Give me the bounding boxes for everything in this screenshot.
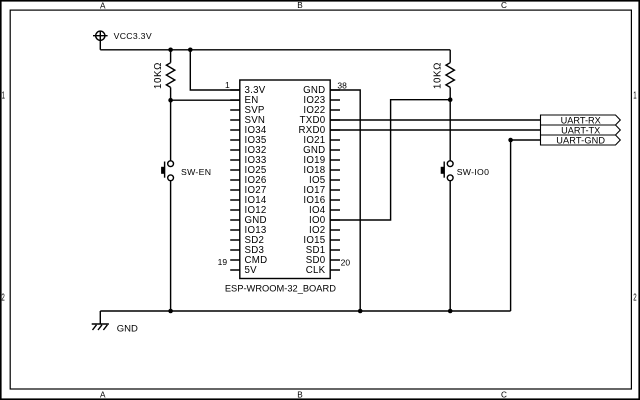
svg-text:1: 1 — [2, 91, 6, 102]
svg-text:SW-IO0: SW-IO0 — [457, 167, 490, 177]
wire GND pin 38 to rail — [330, 90, 360, 311]
svg-text:UART-TX: UART-TX — [561, 126, 600, 136]
svg-text:B: B — [297, 1, 303, 10]
resistor R2 10KΩ (IO0 pull-up) — [446, 50, 454, 100]
node junction SW-IO0/GND — [448, 309, 453, 314]
svg-text:1: 1 — [225, 80, 230, 90]
svg-text:GND: GND — [117, 324, 138, 335]
node junction IO0 pull-up — [448, 97, 453, 102]
svg-text:1: 1 — [633, 91, 637, 102]
wire EN to pin 2 — [171, 99, 240, 101]
wire UART-GND flag to rail — [511, 140, 541, 311]
net port flag UART-TX — [541, 125, 621, 135]
wire 3.3V to pin 1 — [190, 50, 240, 90]
svg-text:ESP-WROOM-32_BOARD: ESP-WROOM-32_BOARD — [225, 284, 336, 294]
svg-text:2: 2 — [1, 293, 5, 304]
wire junction to SW-IO0 — [449, 100, 451, 161]
svg-text:10KΩ: 10KΩ — [153, 62, 164, 89]
U1 left pin name labels — [245, 85, 268, 276]
wire rail to ground symbol — [99, 311, 101, 324]
svg-text:2: 2 — [633, 293, 637, 304]
svg-text:10KΩ: 10KΩ — [432, 62, 443, 89]
wire TXD0 to UART-RX — [330, 119, 540, 121]
node junction UART-GND — [508, 138, 513, 143]
resistor R1 10KΩ (EN pull-up) — [166, 50, 174, 100]
node junction R1 top — [168, 48, 173, 53]
svg-text:A: A — [100, 2, 106, 11]
pushbutton SW-IO0 — [444, 161, 453, 181]
U1 right pin name labels — [299, 85, 326, 276]
node junction 3.3V branch — [188, 48, 193, 53]
svg-text:C: C — [501, 390, 507, 399]
svg-text:38: 38 — [337, 81, 347, 91]
IC U1 ESP-WROOM-32_BOARD body — [230, 80, 340, 279]
wire SW-IO0 to GND rail — [449, 181, 451, 311]
wire RXD0 to UART-TX — [330, 129, 540, 131]
svg-text:5V: 5V — [245, 265, 258, 276]
svg-text:B: B — [297, 390, 303, 399]
node junction SW-EN/GND — [168, 309, 173, 314]
node junction EN — [168, 98, 173, 103]
svg-text:SW-EN: SW-EN — [181, 167, 211, 177]
wire EN to SW-EN — [170, 100, 172, 161]
net port flag UART-RX — [541, 115, 621, 125]
pushbutton SW-EN — [165, 161, 174, 181]
node junction GND38/rail — [358, 309, 363, 314]
svg-text:20: 20 — [341, 258, 351, 268]
wire GND rail — [100, 310, 510, 312]
svg-text:UART-GND: UART-GND — [556, 136, 605, 146]
svg-text:19: 19 — [218, 257, 228, 267]
svg-text:C: C — [501, 1, 507, 10]
svg-text:CLK: CLK — [306, 265, 326, 276]
svg-text:VCC3.3V: VCC3.3V — [114, 31, 152, 41]
wire VCC top rail — [100, 49, 450, 51]
wire SW-EN to GND rail — [170, 181, 172, 311]
power flag VCC3.3V — [93, 31, 108, 50]
svg-text:UART-RX: UART-RX — [561, 116, 601, 126]
net port flag UART-GND — [541, 135, 621, 145]
wire pull-up to IO0 pin — [330, 100, 450, 220]
ground symbol GND — [92, 323, 109, 325]
svg-text:A: A — [100, 390, 106, 399]
